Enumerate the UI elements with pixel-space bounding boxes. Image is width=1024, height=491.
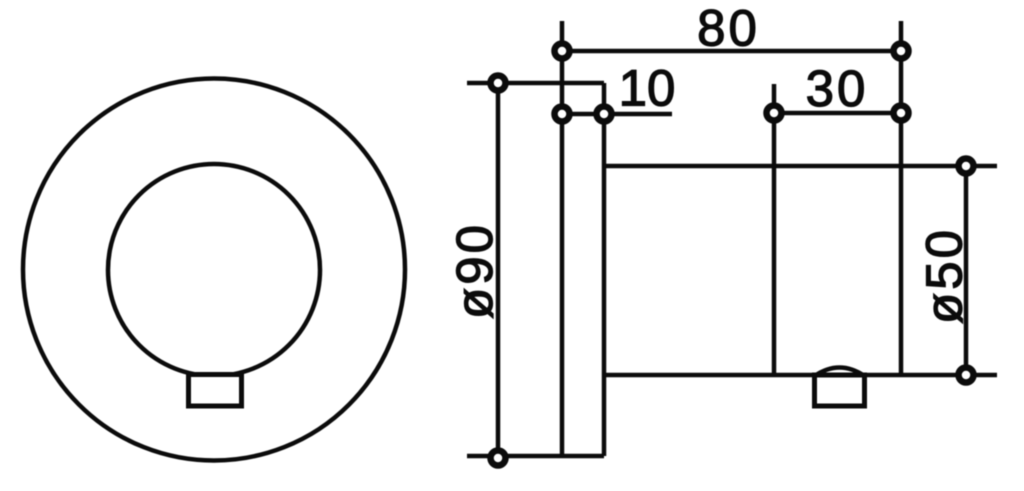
svg-text:ø90: ø90: [446, 222, 503, 319]
dim end circle 80 left: [555, 44, 570, 59]
dim end circle 30 left: [767, 106, 782, 121]
front view inner circle (body d50): [108, 164, 320, 376]
dimension line d90: [496, 83, 501, 458]
dim end circle d90 top: [491, 76, 506, 91]
dim end circle 30 right: [894, 106, 909, 121]
svg-text:ø50: ø50: [915, 227, 972, 324]
svg-text:30: 30: [806, 60, 869, 117]
dim end circle d50 bottom: [959, 368, 974, 383]
dim end circle 10 right: [597, 107, 612, 122]
flange right edge: [602, 83, 607, 456]
dim end circle d50 top: [959, 159, 974, 174]
front view handle tab: [189, 375, 242, 407]
dim end circle 10 left: [555, 107, 570, 122]
dimension line 30: [774, 111, 901, 116]
flange bottom edge + extension left to d90 dim: [467, 454, 604, 459]
side view handle tab: [815, 375, 865, 406]
dimension line 80: [562, 49, 901, 54]
side view handle tab dome: [815, 368, 865, 377]
dimension line 10: [562, 112, 672, 117]
extension line for 30 dim into body: [772, 84, 777, 375]
svg-text:10: 10: [619, 60, 676, 117]
front view outer circle (flange d90): [23, 79, 405, 461]
body top edge + extension right to d50 dim: [604, 164, 997, 169]
flange top edge + extension left to d90 dim: [467, 81, 604, 86]
dimension line d50: [964, 166, 969, 375]
svg-text:80: 80: [697, 0, 760, 57]
body bottom edge + extension right to d50 dim: [604, 373, 997, 378]
dim end circle d90 bottom: [491, 451, 506, 466]
flange left edge + extension line up to 80 dim: [560, 21, 565, 456]
body right edge + extension line up to 80 dim: [899, 21, 904, 375]
dim end circle 80 right: [894, 44, 909, 59]
